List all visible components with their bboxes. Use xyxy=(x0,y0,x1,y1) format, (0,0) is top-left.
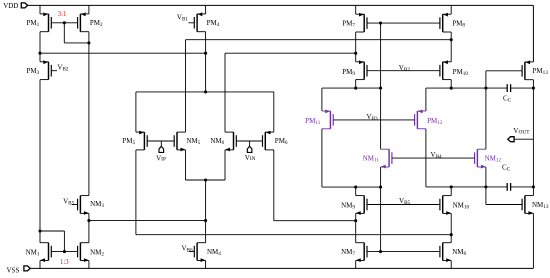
wire NM1 NM2 gate bus xyxy=(51,251,77,253)
wire PM1 source to VDD xyxy=(39,5,41,14)
junction node C NM11 source xyxy=(379,186,382,189)
pmos PM6 xyxy=(263,131,274,150)
wire NMOS pair tail rail xyxy=(186,179,226,181)
junction node A output rail xyxy=(532,87,535,90)
svg-text:VIN: VIN xyxy=(245,154,256,162)
wire NM4 drain xyxy=(205,180,207,243)
wire NM1 gate tie horizontal xyxy=(40,230,64,232)
wire NM6 drain to PM7 drain xyxy=(225,52,356,54)
port VIN xyxy=(247,146,252,152)
svg-text:1:3: 1:3 xyxy=(60,259,69,266)
pmos PM8 xyxy=(440,13,451,32)
wire PM12 drain drop xyxy=(425,129,427,187)
wire NM9 NM10 gate bus VB5 xyxy=(367,204,440,206)
wire NM10 source xyxy=(450,213,452,234)
nmos NM1 xyxy=(40,243,51,262)
wire PM7 drain xyxy=(355,32,357,53)
wire NM1 drain xyxy=(39,231,41,243)
junction NM6 drain PM7 drain xyxy=(354,52,357,55)
port VIP xyxy=(159,146,164,152)
pmos PM2 xyxy=(78,12,89,31)
svg-text:VSS: VSS xyxy=(7,266,20,274)
wire PM2 drain xyxy=(88,32,90,43)
junction node D NM10 drain xyxy=(450,185,453,188)
nmos NM8 xyxy=(440,243,451,262)
wire PM3 source xyxy=(39,53,41,62)
junction PM6 drain NM7 drain xyxy=(354,219,357,222)
wire NM6 drain riser xyxy=(224,53,226,132)
junction NM7/NM8 gates bus X xyxy=(379,250,382,253)
wire NM5 drain to PM8 drain xyxy=(186,39,452,41)
junction gate bus X riser xyxy=(379,22,382,25)
wire NM4 gate stub VB6 xyxy=(189,251,195,253)
pmos PM7 xyxy=(356,13,367,32)
pmos PM10 xyxy=(440,60,451,79)
wire VIN gate bus xyxy=(236,140,262,142)
junction NM5 drain PM8 drain xyxy=(450,38,453,41)
wire gate tie vertical xyxy=(63,23,65,43)
junction node A NM12 drain xyxy=(484,87,487,90)
wire output rail xyxy=(532,88,534,196)
wire gate tie horizontal xyxy=(64,42,89,44)
wire PM5 source xyxy=(135,92,137,132)
junction node C NM9 drain xyxy=(354,186,357,189)
node PMOS pair tail xyxy=(204,90,207,93)
wire PM4 drain xyxy=(205,32,207,92)
wire NM1 source xyxy=(39,261,41,269)
wire PM8 drain xyxy=(450,32,452,40)
port VSS xyxy=(24,266,30,271)
nmos NM5 xyxy=(174,132,185,151)
junction PM1/PM2 gates xyxy=(63,21,66,24)
wire NM5 source xyxy=(185,150,187,180)
wire NM9 source xyxy=(355,213,357,220)
wire PM9 PM10 gate bus VB2 xyxy=(367,70,440,72)
wire NM6 source xyxy=(224,150,226,180)
wire bus X lower xyxy=(380,187,382,252)
wire PM7 PM8 gate bus xyxy=(367,22,440,24)
wire NM5 drain riser xyxy=(185,40,187,132)
wire PM5 drain to NM8 drain xyxy=(136,234,451,236)
wire NM1 gate tie vertical xyxy=(63,231,65,252)
pmos PM9 xyxy=(356,60,367,79)
wire VIN stub xyxy=(249,141,251,146)
junction NM1/NM2 gates xyxy=(63,250,66,253)
wire NM13 gate xyxy=(486,204,522,206)
wire NM7 drain xyxy=(355,221,357,243)
wire PM5 drain drop xyxy=(135,150,137,235)
nmos NM4 xyxy=(194,243,205,262)
node NM1 drain PM3 drain xyxy=(38,229,41,232)
pmos PM5 xyxy=(136,131,147,150)
wire PM1 PM2 gate bus xyxy=(51,22,77,24)
junction NM3 source tail link xyxy=(87,219,90,222)
wire NM3 gate stub VB5 xyxy=(72,204,78,206)
wire node A rail right xyxy=(511,87,534,89)
wire NM10 drain xyxy=(450,187,452,196)
port VDD xyxy=(21,3,27,8)
junction PM5 drain NM8 drain xyxy=(450,233,453,236)
wire VOUT stub xyxy=(514,138,533,140)
wire NM8 source xyxy=(450,261,452,269)
node NMOS pair tail xyxy=(204,178,207,181)
wire VIP gate bus xyxy=(147,140,174,142)
wire bus X upper xyxy=(380,23,382,88)
capacitor Cc bottom xyxy=(507,183,510,191)
wire node D rail right xyxy=(511,186,534,188)
wire NM4 source xyxy=(205,261,207,269)
wire NM2 source xyxy=(88,261,90,269)
wire VDD right drop to PM13 source xyxy=(532,5,534,62)
svg-text:VIP: VIP xyxy=(156,154,166,162)
pmos PM1 xyxy=(40,12,51,31)
pmos PM12 xyxy=(415,110,426,129)
nmos NM12 xyxy=(475,149,486,168)
wire NM7 NM8 gate bus xyxy=(367,251,440,253)
wire rail A to PM4 drain xyxy=(40,52,206,54)
wire PM11 drain to node C xyxy=(322,186,381,188)
wire NM13 source xyxy=(532,213,534,268)
port VOUT xyxy=(508,137,514,142)
wire PM4 source xyxy=(205,5,207,14)
wire node B rail xyxy=(322,87,381,89)
capacitor Cc top xyxy=(507,84,510,92)
wire PM13 gate riser xyxy=(485,71,487,88)
pmos PM3 xyxy=(40,60,51,79)
junction PM2 drain-gate tie xyxy=(87,41,90,44)
wire PM10 source xyxy=(450,40,452,62)
wire PM1 drain xyxy=(39,32,41,54)
wire PM13 drain xyxy=(532,80,534,88)
wire PM13 gate xyxy=(486,70,522,72)
nmos NM10 xyxy=(440,196,451,215)
pmos PM13 xyxy=(522,60,533,79)
wire NM12 source xyxy=(485,167,487,187)
wire PM6 drain drop xyxy=(273,150,275,221)
pmos PM11 xyxy=(322,110,333,129)
wire PM6 drain to NM7 drain xyxy=(274,220,356,222)
wire PM10 drain xyxy=(450,80,452,89)
nmos NM11 xyxy=(381,149,392,168)
wire PM9 source xyxy=(355,53,357,62)
wire NM7 source xyxy=(355,261,357,269)
nmos NM3 xyxy=(78,196,89,215)
wire NM11 NM12 gate bus VB4 xyxy=(392,157,475,159)
svg-text:3:1: 3:1 xyxy=(58,11,67,18)
junction node D output rail xyxy=(532,185,535,188)
wire PM3 drain long xyxy=(39,80,41,231)
wire PM9 drain xyxy=(355,80,357,89)
wire NM8 drain xyxy=(450,235,452,243)
junction node B bus X xyxy=(379,87,382,90)
node PM1 drain rail A xyxy=(38,52,41,55)
nmos NM2 xyxy=(78,243,89,262)
wire VIP stub xyxy=(160,141,162,146)
junction node B PM9 drain xyxy=(354,87,357,90)
junction node A PM10 drain xyxy=(450,87,453,90)
wire PM2 drain to NM3 drain xyxy=(88,43,90,196)
nmos NM13 xyxy=(522,196,533,215)
wire NM2 drain NM3 source xyxy=(88,213,90,242)
wire PM8 source xyxy=(450,5,452,14)
junction rail A PM4 drain xyxy=(204,52,207,55)
wire PM7 source xyxy=(355,5,357,14)
wire VSS rail xyxy=(30,267,533,269)
wire bus X to NM11 drain xyxy=(380,88,382,149)
wire NM11 source xyxy=(380,167,382,187)
wire PM3 gate stub VB2 xyxy=(51,70,57,72)
wire PM12 source xyxy=(425,88,427,111)
nmos NM9 xyxy=(356,196,367,215)
wire PM4 gate stub VB1 xyxy=(189,22,195,24)
nmos NM6 xyxy=(225,132,236,151)
pmos PM4 xyxy=(194,12,205,31)
wire node D rail left xyxy=(426,186,507,188)
junction tail link NM4 drain xyxy=(204,219,207,222)
nmos NM7 xyxy=(356,243,367,262)
wire VDD rail xyxy=(28,4,534,6)
wire tail link left xyxy=(89,220,206,222)
wire NM12 drain xyxy=(485,88,487,149)
wire PM11 PM12 gate bus VB3 xyxy=(333,119,414,121)
svg-text:VDD: VDD xyxy=(3,2,18,10)
wire NM13 gate riser xyxy=(485,187,487,205)
wire NM9 drain xyxy=(355,187,357,196)
wire PM2 source to VDD xyxy=(88,5,90,14)
wire PM11 drain drop xyxy=(321,129,323,187)
wire PMOS pair tail rail xyxy=(136,91,274,93)
junction node D NM12 source xyxy=(484,185,487,188)
wire PM11 source xyxy=(321,88,323,111)
wire PM6 source xyxy=(273,92,275,132)
wire node A rail left xyxy=(426,87,507,89)
